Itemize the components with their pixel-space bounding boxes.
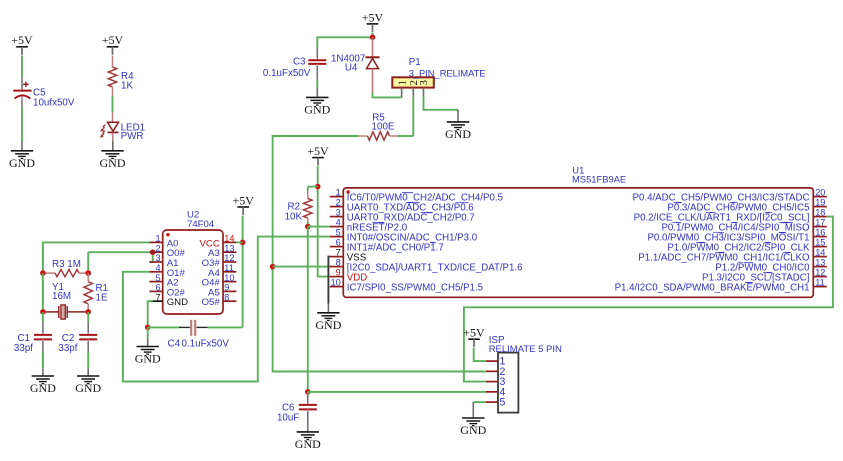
connector P1 3_PIN_RELIMATE (392, 57, 485, 97)
U2 pin 4 O1# (149, 263, 185, 279)
U1 pin 5 (330, 227, 478, 243)
svg-text:19: 19 (815, 197, 825, 207)
junction (240, 240, 246, 246)
svg-text:10: 10 (331, 277, 341, 287)
svg-text:100E: 100E (372, 122, 395, 133)
ground (U2/C4) (135, 327, 161, 365)
U1 pin 7 (330, 247, 367, 263)
wire (to ISP pin4) (308, 391, 486, 393)
U1 pin 6 (330, 237, 444, 253)
U1 pin 19 (667, 197, 826, 213)
svg-text:3: 3 (155, 253, 160, 263)
svg-text:8: 8 (224, 292, 229, 302)
ISP pin 3 (486, 376, 506, 388)
U2 pin 10 O4# (202, 273, 237, 289)
U1 pin 4 (330, 217, 408, 233)
op-amp U2 74F04 body (163, 209, 223, 314)
wire (U2 pins2-3 tie) (88, 252, 153, 273)
ground (P1 pin3) (445, 110, 471, 141)
wire (308, 187, 318, 191)
wire (373, 93, 402, 98)
svg-text:+5V: +5V (362, 10, 384, 24)
U1 pin 20 (633, 187, 827, 203)
junction (85, 309, 91, 315)
U1 pin 16 (647, 227, 826, 243)
svg-text:8: 8 (336, 257, 341, 267)
wire (U2 VCC / C4) (242, 216, 244, 328)
svg-text:RELIMATE 5 PIN: RELIMATE 5 PIN (489, 344, 562, 355)
svg-text:3: 3 (418, 80, 430, 86)
U1 pin 3 (330, 207, 475, 223)
svg-text:GND: GND (295, 437, 321, 451)
ISP pin 2 (486, 366, 506, 378)
wire (21, 107, 23, 142)
ground (ISP) (460, 402, 486, 437)
U2 pin 1 A0 (149, 234, 178, 250)
svg-text:2: 2 (155, 243, 160, 253)
svg-text:MS51FB9AE: MS51FB9AE (572, 173, 626, 184)
svg-text:18: 18 (815, 207, 825, 217)
svg-text:14: 14 (815, 247, 825, 257)
svg-text:C4: C4 (168, 338, 181, 349)
svg-text:1E: 1E (96, 293, 108, 304)
U1 pin 13 (715, 257, 827, 273)
ground (C1) (30, 368, 56, 395)
ISP pin 4 (486, 386, 506, 398)
U2 pin 3 A1 (149, 253, 178, 269)
svg-text:GND: GND (135, 352, 161, 366)
svg-text:GND: GND (445, 127, 471, 141)
U1 pin 11 (615, 277, 827, 293)
svg-text:14: 14 (224, 234, 234, 244)
junction (40, 270, 46, 276)
junction (305, 224, 311, 230)
ground (LED) (100, 141, 126, 170)
svg-text:5: 5 (155, 273, 160, 283)
capacitor C1 33pf (14, 312, 52, 354)
svg-text:GND: GND (30, 381, 56, 395)
svg-text:U4: U4 (345, 62, 358, 73)
wire (307, 227, 309, 392)
U2 pin 9 A5 (208, 283, 236, 299)
ground (MCU VSS) (315, 304, 341, 333)
wire (R5 to ISP pin2) (273, 136, 486, 372)
svg-text:11: 11 (815, 277, 825, 287)
svg-text:12: 12 (815, 267, 825, 277)
power +5V (MCU) (307, 144, 329, 166)
svg-text:11: 11 (224, 263, 234, 273)
wire (316, 80, 318, 89)
U1 pin 18 (634, 207, 827, 223)
svg-text:4: 4 (336, 217, 341, 227)
wire (236, 241, 242, 243)
svg-text:1: 1 (336, 187, 341, 197)
svg-text:10ufx50V: 10ufx50V (33, 97, 75, 108)
svg-text:IC7/SPI0_SS/PWM0_CH5/P1.5: IC7/SPI0_SS/PWM0_CH5/P1.5 (347, 282, 483, 293)
svg-text:12: 12 (224, 253, 234, 263)
U1 pin 14 (638, 247, 827, 263)
connector ISP RELIMATE 5 PIN body (489, 335, 562, 413)
svg-text:1: 1 (155, 234, 160, 244)
ISP pin 5 (486, 397, 506, 409)
power +5V (C5 branch) (11, 33, 33, 55)
svg-text:C3: C3 (293, 57, 306, 68)
wire (42, 352, 44, 368)
ground (C2) (75, 368, 101, 395)
capacitor C4 0.1uFx50V (148, 320, 230, 350)
svg-text:33pf: 33pf (58, 343, 77, 354)
wire (MCU pin8) (273, 266, 330, 268)
U2 pin 13 A3 (208, 243, 236, 259)
U2 pin 2 O0# (149, 243, 185, 259)
svg-text:GND: GND (460, 423, 486, 437)
IC U1 MS51FB9AE body (343, 164, 813, 297)
resistor R5 100E (359, 113, 399, 141)
ground (C5) (9, 142, 35, 170)
U1 pin 10 (330, 277, 483, 293)
LED LED1 PWR (100, 112, 145, 141)
U2 pin 14 VCC (200, 234, 237, 250)
svg-text:5: 5 (336, 227, 341, 237)
wire (21, 56, 23, 78)
junction (85, 270, 91, 276)
capacitor C3 0.1uFx50V (263, 49, 326, 80)
svg-text:17: 17 (815, 217, 825, 227)
svg-text:1: 1 (396, 80, 408, 86)
resistor R1 1E (84, 273, 108, 312)
svg-text:+5V: +5V (463, 326, 485, 340)
svg-text:16M: 16M (52, 291, 71, 302)
svg-text:GND: GND (9, 156, 35, 170)
ground (C3) (304, 89, 330, 117)
svg-text:0.1uFx50V: 0.1uFx50V (263, 68, 311, 79)
svg-text:13: 13 (815, 257, 825, 267)
svg-text:PWR: PWR (121, 131, 144, 142)
junction (305, 389, 311, 395)
U1 pin 12 (702, 267, 827, 283)
junction (40, 309, 46, 315)
ISP pin 1 (486, 356, 506, 368)
svg-text:P1: P1 (409, 57, 421, 68)
resistor R3 1M (45, 259, 87, 277)
svg-text:9: 9 (336, 267, 341, 277)
junction (145, 325, 151, 331)
junction (370, 35, 376, 41)
U1 pin 1 (330, 187, 503, 203)
power +5V (U2) (232, 193, 254, 215)
svg-text:3_PIN_RELIMATE: 3_PIN_RELIMATE (409, 68, 486, 78)
resistor R4 1K (108, 56, 134, 97)
U2 pin 6 O2# (149, 283, 185, 299)
svg-text:1K: 1K (121, 81, 133, 92)
svg-text:9: 9 (224, 283, 229, 293)
wire (MCU VSS to GND) (328, 257, 329, 304)
wire (OSC to MCU INT0) (123, 237, 330, 382)
svg-text:R3 1M: R3 1M (52, 259, 81, 270)
svg-text:6: 6 (336, 237, 341, 247)
svg-text:+5V: +5V (102, 33, 124, 47)
svg-text:15: 15 (815, 237, 825, 247)
svg-text:+5V: +5V (232, 193, 254, 207)
U2 pin 5 A2 (149, 273, 178, 289)
U1 pin 9 (330, 267, 367, 283)
power +5V (ISP) (463, 326, 485, 348)
svg-text:10: 10 (224, 273, 234, 283)
wire (U2 GND pin7) (148, 301, 153, 327)
svg-text:33pf: 33pf (14, 343, 33, 354)
svg-text:16: 16 (815, 227, 825, 237)
wire (ICE_CLK MCU pin18 to ISP pin3) (464, 217, 833, 382)
junction (315, 184, 321, 190)
svg-text:P1.4/I2C0_SDA/PWM0_BRAKE/PWM0_: P1.4/I2C0_SDA/PWM0_BRAKE/PWM0_CH1 (615, 282, 810, 293)
svg-text:2: 2 (336, 197, 341, 207)
wire (42, 273, 44, 312)
wire (307, 222, 309, 227)
wire (112, 96, 114, 112)
U1 pin 15 (667, 237, 826, 253)
U2 pin 8 O5# (202, 292, 237, 308)
capacitor C2 33pf (58, 312, 97, 354)
wire (424, 97, 459, 110)
svg-text:GND: GND (100, 156, 126, 170)
wire (398, 135, 413, 137)
svg-text:GND: GND (167, 297, 188, 308)
wire (412, 97, 414, 136)
U2 pin 12 O3# (202, 253, 237, 269)
power +5V (input) (362, 10, 384, 32)
svg-text:GND: GND (304, 103, 330, 117)
U1 pin 8 (330, 257, 523, 273)
crystal Y1 16M (45, 282, 87, 319)
wire (208, 326, 243, 328)
svg-text:4: 4 (155, 263, 160, 273)
svg-text:10K: 10K (285, 212, 303, 223)
svg-text:7: 7 (155, 292, 160, 302)
U1 pin 17 (661, 217, 826, 233)
U1 pin 2 (330, 197, 474, 213)
wire (318, 166, 330, 276)
junction (150, 249, 156, 255)
wire (nRESET) (308, 226, 330, 228)
diode U4 1N4007 (331, 37, 380, 93)
capacitor C5 (13, 77, 75, 108)
svg-text:0.1uFx50V: 0.1uFx50V (182, 338, 230, 349)
svg-text:10uF: 10uF (277, 413, 299, 424)
wire (474, 348, 486, 361)
svg-text:20: 20 (815, 187, 825, 197)
power +5V (LED branch) (102, 33, 124, 55)
wire (U2 pin1 to R3) (43, 242, 149, 273)
ground (C6) (295, 432, 321, 451)
svg-text:74F04: 74F04 (187, 219, 215, 230)
svg-text:O5#: O5# (202, 297, 221, 308)
wire (473, 401, 486, 403)
svg-text:[I2C0_SDA]/UART1_TXD/ICE_DAT/P: [I2C0_SDA]/UART1_TXD/ICE_DAT/P1.6 (347, 262, 523, 273)
svg-text:5: 5 (499, 397, 505, 409)
junction (270, 264, 276, 270)
resistor R2 10K (285, 191, 312, 223)
svg-text:+5V: +5V (307, 144, 329, 158)
svg-text:7: 7 (336, 247, 341, 257)
U2 pin 11 A4 (208, 263, 236, 279)
svg-text:+5V: +5V (11, 33, 33, 47)
svg-text:6: 6 (155, 283, 160, 293)
svg-text:13: 13 (224, 243, 234, 253)
svg-text:GND: GND (315, 318, 341, 332)
wire (87, 352, 89, 368)
svg-text:GND: GND (75, 381, 101, 395)
U2 pin 7 GND (149, 292, 188, 308)
wire (317, 33, 372, 49)
svg-text:3: 3 (336, 207, 341, 217)
capacitor C6 10uF (277, 392, 317, 432)
